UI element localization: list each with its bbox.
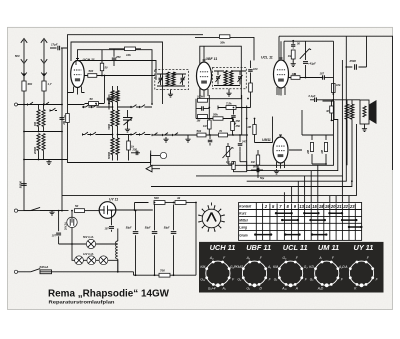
capacitor 41uF electrolytic [305, 51, 307, 60]
svg-text:50: 50 [297, 41, 300, 45]
svg-text:A₁D: A₁D [317, 286, 324, 290]
svg-text:18: 18 [319, 204, 324, 209]
wire UM conn [247, 106, 302, 171]
transformer IFT2 shield box [213, 68, 247, 89]
resistor 10k UCL screen [332, 84, 336, 93]
svg-text:10k: 10k [292, 72, 297, 76]
resistor 30 screen feed [330, 106, 334, 113]
wire AF row135 [152, 134, 248, 136]
svg-text:UM11: UM11 [262, 138, 271, 142]
transformer output primary [345, 104, 349, 119]
tube UCL11 pins [277, 87, 285, 96]
tube UY11 rectifier [99, 202, 116, 219]
wire AGC rail y42 [71, 42, 163, 104]
svg-text:50: 50 [90, 97, 94, 101]
tube UCL11 [274, 60, 289, 88]
resistor 50k row135 [197, 133, 206, 137]
terminal phono [160, 152, 166, 158]
trimmer IFT1 left [159, 78, 163, 79]
svg-text:KM: KM [200, 265, 205, 269]
capacitor 17pF antenna coupling [50, 48, 67, 104]
lamp L2 12V [87, 256, 96, 265]
node lower left [61, 210, 63, 212]
wire speaker conn [360, 100, 365, 127]
coil osc bottom section [111, 138, 114, 155]
svg-text:SW: SW [28, 82, 33, 86]
svg-text:13: 13 [299, 204, 304, 209]
svg-text:0,1µF: 0,1µF [309, 94, 316, 98]
wire left column down [23, 105, 25, 211]
socket UM 11 [309, 243, 345, 290]
svg-text:50µF: 50µF [164, 227, 170, 230]
svg-text:UY 11: UY 11 [109, 198, 118, 202]
svg-text:7k: 7k [219, 129, 223, 133]
svg-text:21: 21 [336, 204, 342, 209]
svg-text:10k: 10k [336, 83, 341, 87]
capacitor coupling under row135 [209, 135, 211, 139]
capacitor 50 UCL grid [292, 41, 294, 44]
svg-text:Gram: Gram [239, 233, 247, 237]
svg-text:G₁: G₁ [274, 277, 278, 281]
resistor 1k osc [127, 141, 131, 150]
capacitor det mid [202, 106, 204, 111]
ground UCL grid [291, 62, 296, 67]
svg-text:250: 250 [132, 147, 138, 151]
svg-text:20V,1A: 20V,1A [65, 222, 68, 231]
antenna A1 lower arrowhead [21, 73, 27, 77]
ground speaker [362, 127, 367, 132]
resistor 500 B+ [154, 201, 165, 205]
svg-text:100k: 100k [197, 94, 203, 98]
capacitor 250 det [233, 110, 235, 115]
wire lamp row top [72, 236, 118, 245]
ground switch mid b [185, 137, 190, 142]
lamp scale 6V [86, 239, 95, 248]
capacitor 107 mid [109, 227, 114, 229]
svg-text:247: 247 [241, 140, 247, 144]
node bottom rail [117, 271, 119, 273]
svg-text:50µ: 50µ [260, 177, 265, 180]
tube UM11 pins [277, 162, 285, 169]
svg-text:700: 700 [160, 269, 165, 273]
resistor antenna 2 [42, 81, 46, 91]
socket UCL 11 [273, 243, 308, 290]
tube UBF11 [197, 62, 212, 90]
variable capacitor osc [123, 110, 133, 127]
svg-text:5000: 5000 [253, 166, 259, 169]
terminal input left [15, 103, 18, 106]
svg-text:10k: 10k [126, 53, 131, 57]
node plate UCH [104, 75, 106, 77]
capacitor 250 osc bottom [131, 152, 140, 154]
wire row2 [82, 134, 151, 136]
resistor 2M [310, 143, 313, 152]
svg-text:Lang: Lang [239, 226, 247, 230]
antenna A1 [21, 39, 27, 81]
svg-text:300: 300 [108, 99, 111, 104]
switch row2 osc a [83, 134, 90, 136]
svg-text:14: 14 [306, 204, 311, 209]
coil osc top section [111, 91, 114, 103]
svg-text:50: 50 [75, 204, 79, 208]
svg-text:UBF 11: UBF 11 [246, 243, 271, 252]
capacitor 01uF UCL [310, 99, 314, 101]
svg-text:Reparaturstromlaufplan: Reparaturstromlaufplan [49, 300, 115, 305]
resistor 10k UCL anode [289, 77, 323, 79]
svg-text:30k: 30k [220, 41, 225, 45]
wire bus L5 [151, 181, 352, 186]
svg-text:50V 0,1A: 50V 0,1A [83, 236, 94, 239]
resistor 1M det [198, 115, 208, 119]
wire bus L2 [247, 101, 338, 171]
transformer IFT1 windings [166, 72, 169, 86]
wire bus L1 [151, 41, 334, 165]
node UY out [134, 209, 136, 211]
fuse 630mA [40, 270, 52, 274]
wire mid row y131.5 [24, 131, 62, 133]
svg-text:G₃: G₃ [282, 256, 287, 260]
capacitor det 100 [250, 61, 252, 69]
switch row mid b [163, 134, 170, 136]
switch row1 osc b [92, 106, 99, 108]
ground det [231, 121, 236, 126]
table connection bars [255, 213, 361, 234]
resistor 10k AGC top [109, 48, 141, 50]
socket UY 11 [344, 243, 378, 290]
svg-text:50k: 50k [213, 112, 218, 116]
svg-text:187: 187 [320, 72, 325, 76]
svg-text:500: 500 [89, 69, 94, 73]
resistor 1M det vertical [208, 120, 212, 129]
svg-text:KMG: KMG [236, 265, 244, 269]
capacitor 50000 left column [21, 184, 27, 186]
node UM [246, 118, 248, 120]
capacitor 107 left [58, 211, 60, 232]
node stair [345, 66, 347, 68]
table rows [239, 210, 362, 231]
svg-text:G₁₃: G₁₃ [200, 277, 206, 281]
electrolytic 50uF a [135, 211, 137, 231]
svg-text:Mittel: Mittel [239, 219, 247, 223]
svg-text:10T: 10T [52, 235, 57, 238]
svg-text:2M: 2M [306, 149, 310, 154]
svg-text:17pF: 17pF [51, 43, 58, 47]
resistor 50 UCH cathode [85, 103, 105, 105]
potentiometer UCL tone [305, 41, 307, 51]
table contact chart frame [239, 203, 362, 241]
resistor 1M UCL grid leak [292, 48, 294, 49]
svg-text:G₁: G₁ [246, 286, 250, 290]
svg-text:UM 11: UM 11 [318, 243, 339, 252]
wire left input bus [18, 104, 63, 106]
wire rail 30k [195, 37, 254, 60]
node left bottom [23, 159, 25, 161]
svg-text:50µF: 50µF [145, 227, 151, 230]
svg-text:A₂D: A₂D [338, 265, 345, 269]
transformer IFT1 shield box [155, 70, 189, 90]
switch row mid c [173, 134, 180, 136]
capacitor 250 top [113, 49, 115, 57]
resistor 7k row135 [219, 133, 228, 137]
node row2 [112, 134, 114, 136]
wire UCL outer box [279, 36, 346, 95]
resistor 1M UM cathode [256, 155, 259, 165]
resistor 50 screen drop [100, 63, 103, 70]
svg-text:A₁₁: A₁₁ [281, 286, 286, 290]
svg-text:Kurz: Kurz [239, 212, 246, 216]
wire B+ mid [165, 202, 175, 204]
wire left lower join [24, 105, 62, 211]
node UCL grid [292, 40, 294, 42]
table label column line [255, 203, 257, 241]
transformer output secondary [350, 104, 354, 119]
svg-text:12V 0,1A: 12V 0,1A [83, 253, 94, 256]
switch row2 osc b [91, 134, 98, 136]
resistor 50 dropper [75, 209, 85, 213]
resistor 25k vertical [231, 122, 235, 131]
wire grid feed [68, 104, 85, 106]
svg-text:1,7: 1,7 [48, 82, 52, 86]
wire top right rail [346, 36, 392, 170]
node UCH cathode [108, 103, 110, 105]
svg-text:A₁: A₁ [267, 265, 271, 269]
wire box bottom rail [68, 151, 151, 163]
socket UCH 11 [200, 243, 237, 290]
node row1 [112, 106, 114, 108]
capacitor UCH 250 [108, 95, 110, 110]
wire bottom rail mid [118, 272, 196, 275]
svg-text:5000: 5000 [108, 123, 111, 129]
wire bus L4 [247, 67, 347, 181]
switch row1 osc c [131, 106, 138, 108]
wire UCL inner box [284, 41, 334, 71]
svg-text:15: 15 [312, 204, 317, 209]
svg-text:50000: 50000 [108, 151, 111, 159]
switch row2 osc c [131, 134, 138, 136]
wire left bottom row [24, 158, 68, 160]
wire UBF top cap [203, 46, 205, 61]
wire transformer top conn [323, 100, 361, 104]
trimmer IFT1 right [181, 78, 185, 79]
svg-text:Kontakt: Kontakt [239, 205, 252, 209]
svg-text:50k: 50k [197, 129, 202, 133]
socket UBF 11 [236, 243, 272, 290]
resistor 100k det [198, 98, 208, 102]
resistor 700 [159, 273, 170, 277]
svg-text:4k: 4k [176, 196, 181, 200]
panel tube sockets background [199, 242, 384, 293]
switch contact input a [28, 104, 35, 106]
svg-text:UBF 11: UBF 11 [206, 57, 218, 61]
resistor left rail 2M [66, 114, 70, 123]
volume potentiometer [226, 147, 229, 157]
switch row mid a [152, 134, 159, 136]
svg-text:100: 100 [253, 67, 258, 71]
electrolytic 50uF b [154, 205, 156, 231]
resistor SW antenna 1 [22, 81, 26, 91]
switch wafer rotor [207, 213, 216, 222]
antenna A2 [41, 39, 47, 81]
svg-text:7,5k: 7,5k [226, 101, 232, 105]
node det [241, 107, 243, 109]
coil filter choke [116, 241, 118, 259]
coil osc mid section [111, 110, 114, 126]
switch contact input b [44, 104, 51, 106]
trimmer IFT2 left [216, 77, 220, 78]
svg-text:300: 300 [34, 121, 37, 126]
wire lamp row [72, 244, 118, 272]
svg-text:A₄: A₄ [209, 256, 214, 260]
switch mains lower [31, 269, 40, 272]
table column lines [263, 204, 356, 241]
node screen drop [101, 75, 103, 77]
capacitor x62 118 [60, 118, 65, 120]
svg-text:10T: 10T [104, 228, 109, 231]
svg-text:23: 23 [349, 204, 355, 209]
wire IFT2 conn [214, 71, 246, 92]
svg-text:A₂: A₂ [246, 256, 251, 260]
wire det verticals [196, 95, 251, 135]
ground left lower [49, 210, 54, 215]
terminal mains upper [14, 209, 17, 212]
wire UY out [116, 203, 153, 211]
switch row2 osc d [140, 134, 147, 136]
node AF [232, 118, 234, 120]
wire UCH plate to IFT1 [84, 76, 155, 104]
tube UM11 [273, 137, 288, 163]
node row135 right [239, 134, 241, 136]
svg-text:25k: 25k [235, 124, 241, 128]
svg-text:+41µF: +41µF [308, 62, 316, 66]
capacitor 2500 [346, 36, 366, 67]
wire UCL top cap [280, 41, 282, 59]
speaker frame [360, 100, 369, 124]
tube UCH11 [71, 61, 85, 88]
svg-text:22: 22 [342, 204, 348, 209]
wire stage outer rail [68, 35, 204, 161]
svg-text:G₂+4: G₂+4 [208, 286, 216, 290]
svg-text:250: 250 [115, 55, 121, 59]
ground IFT1 [168, 92, 173, 97]
wire transformer down [347, 119, 352, 181]
capacitor 50uF UM [257, 170, 259, 178]
wire bus L6 [62, 124, 357, 195]
resistor UM grid series [253, 125, 256, 135]
wire stubs into table [284, 165, 349, 202]
wire IFT1 connections [157, 74, 186, 93]
capacitor 247 right [239, 135, 241, 142]
node mains [58, 210, 60, 212]
tube UBF11 pins [200, 89, 208, 98]
svg-text:UCH 11: UCH 11 [210, 243, 236, 252]
node left junctions [23, 104, 25, 106]
lamp L3 12V [99, 256, 108, 265]
resistor 4k B+ [175, 201, 186, 205]
resistor feedback 1M [232, 162, 235, 170]
wire AF rail y118.5 [196, 118, 233, 120]
svg-text:G₁: G₁ [310, 277, 314, 281]
speaker voice coil [363, 106, 366, 117]
svg-text:50: 50 [105, 66, 108, 70]
node elcap a [135, 210, 137, 212]
svg-text:2500: 2500 [349, 59, 357, 63]
wire row1 [82, 106, 152, 108]
svg-text:KM: KM [273, 265, 278, 269]
capacitor 187 UCL [323, 75, 325, 80]
ground coil bottom [46, 160, 51, 165]
resistor 50k [213, 117, 223, 120]
box UBF shield [200, 46, 242, 98]
svg-text:630mA: 630mA [40, 265, 49, 269]
wire mid left rails [68, 154, 151, 166]
svg-text:20000: 20000 [34, 146, 37, 155]
node B+ chain [154, 202, 156, 204]
switch mains upper [31, 207, 69, 210]
svg-text:500: 500 [15, 54, 20, 58]
ground IFT2 [226, 91, 231, 96]
transformer IFT2 windings [224, 71, 227, 86]
node divider [325, 163, 327, 165]
node mid row [23, 131, 25, 133]
svg-text:UY 11: UY 11 [354, 243, 374, 252]
node UCL screen [322, 77, 324, 79]
switch row1 osc d [140, 106, 147, 108]
wire right vert power [196, 203, 212, 276]
speaker cone [369, 100, 377, 124]
lamp L1 12V [75, 256, 84, 265]
capacitor 5000 UM [251, 169, 263, 171]
coil band B [37, 134, 40, 151]
node lamps [71, 243, 73, 245]
resistor 7,5k [218, 106, 248, 110]
svg-text:UCH 11: UCH 11 [83, 58, 95, 62]
antenna A2 lower arrowhead [41, 73, 47, 77]
trimmer IFT2 right [238, 77, 242, 78]
svg-text:UCL 11: UCL 11 [261, 56, 273, 60]
ground UM [274, 169, 279, 174]
switch row1 osc a [84, 106, 91, 108]
terminal TA arrow [146, 166, 160, 172]
svg-text:Rema „Rhapsodie“ 14GW: Rema „Rhapsodie“ 14GW [48, 288, 169, 299]
coil band A [37, 110, 40, 127]
svg-text:20: 20 [330, 204, 336, 209]
svg-text:19: 19 [325, 204, 330, 209]
switch left mid [50, 110, 57, 112]
svg-text:50µF: 50µF [126, 227, 132, 230]
svg-text:KD: KD [309, 265, 314, 269]
svg-text:UCL 11: UCL 11 [283, 243, 308, 252]
resistor 30k top [219, 35, 230, 39]
resistor 500 UCH plate [88, 74, 97, 78]
ground varcap osc [125, 127, 130, 132]
wire inner box y60 [76, 61, 156, 81]
resistor det 100 load [249, 83, 253, 92]
electrolytic 50uF c [173, 205, 175, 231]
svg-text:A₁: A₁ [221, 286, 225, 290]
wire B+ right [186, 202, 196, 204]
node screen feed [331, 100, 333, 102]
resistor 1M right [324, 143, 327, 152]
svg-text:250: 250 [235, 119, 241, 123]
ballast tube UR [67, 217, 77, 227]
svg-text:50000: 50000 [18, 180, 22, 188]
switch wafer rotary [202, 209, 221, 228]
wire grid top cap rail [78, 50, 153, 104]
wire bus L3 [196, 60, 342, 176]
ground switch mid a [163, 137, 168, 142]
terminal mains lower [14, 270, 17, 273]
svg-text:500: 500 [154, 196, 159, 200]
